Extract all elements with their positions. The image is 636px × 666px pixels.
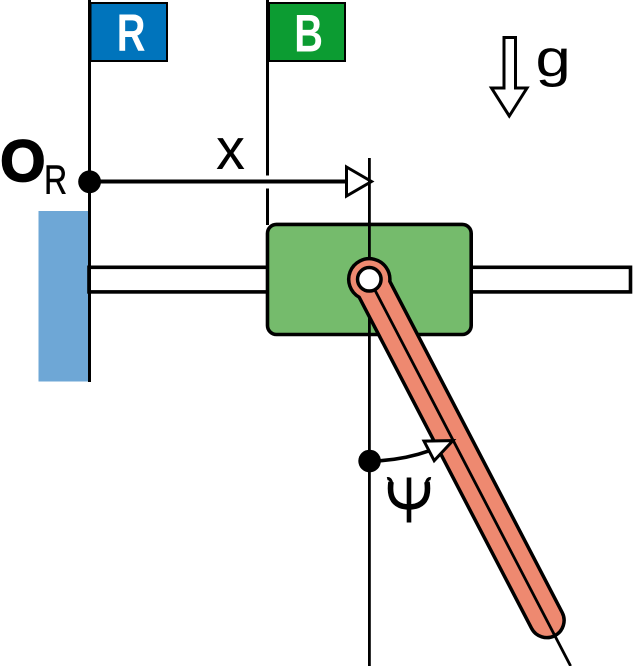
- wire B frame pole lower segment: [266, 189, 269, 226]
- svg-text:B: B: [294, 4, 323, 63]
- svg-text:R: R: [44, 157, 67, 203]
- flag B (green frame flag): [269, 3, 345, 61]
- label R (white letter in flag): [117, 3, 146, 62]
- flag R (blue frame flag): [91, 3, 168, 61]
- wire cart axis line over cart: [368, 224, 371, 334]
- svg-text:x: x: [216, 117, 245, 182]
- wire R frame pole (vertical line): [88, 0, 91, 382]
- svg-text:g: g: [536, 29, 571, 87]
- wire x-arrow shaft: [90, 180, 348, 184]
- psi arrowhead: [424, 441, 453, 461]
- label O_R (origin label): [0, 129, 45, 194]
- svg-text:O: O: [0, 129, 45, 194]
- wire B frame pole upper segment: [266, 0, 269, 176]
- label O_R subscript R: [44, 157, 67, 203]
- rod centerline: [369, 279, 570, 666]
- svg-text:R: R: [117, 3, 146, 62]
- gravity arrow (hollow down arrow): [492, 38, 528, 117]
- label B (white letter in flag): [294, 4, 323, 63]
- label g: [536, 29, 571, 87]
- label psi: [387, 478, 431, 523]
- pivot circle: [358, 268, 382, 292]
- label x: [216, 117, 245, 182]
- node O_R (origin dot): [78, 170, 101, 193]
- wire cart axis vertical line: [368, 158, 371, 666]
- track (horizontal slider rail): [89, 267, 631, 292]
- psi arc: [369, 451, 430, 461]
- wall (light blue block): [39, 211, 90, 382]
- rod body: [342, 252, 574, 646]
- cart (green block): [268, 224, 472, 334]
- x-arrow open head: [347, 167, 372, 196]
- pendulum rod group: [342, 252, 589, 666]
- node psi dot: [358, 450, 381, 473]
